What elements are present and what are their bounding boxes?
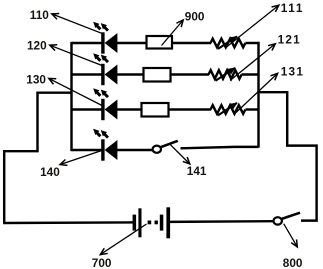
LED D1 emission arrows (93, 22, 108, 31)
switch S1 lever (161, 141, 178, 147)
resistor box row3 (142, 103, 169, 117)
resistor box row2 (144, 68, 171, 82)
LED D3 emission arrows (93, 88, 108, 97)
LED D1 (110) bar (101, 32, 104, 53)
svg-text:800: 800 (283, 256, 303, 269)
left bus vertical (70, 42, 72, 151)
wire row4 LED to switch 141 (117, 149, 152, 151)
svg-text:120: 120 (27, 39, 47, 53)
rheostat VR1 arrow (218, 36, 237, 49)
svg-text:130: 130 (26, 73, 46, 87)
leader 110 (52, 14, 103, 34)
wire row3 box to rheostat (169, 108, 212, 110)
wire row1 LED to resistor 900 (117, 42, 147, 44)
battery 700 cell2 long plate (166, 207, 170, 238)
LED D1 triangle (105, 33, 118, 53)
LED D2 triangle (105, 65, 118, 85)
svg-text:900: 900 (185, 10, 205, 24)
rheostat VR1 zigzag (211, 39, 246, 48)
leader 111 (227, 5, 279, 47)
bottom wire battery to switch 800 (170, 220, 274, 223)
wire row1 rheostat to right bus (246, 42, 260, 44)
rheostat VR2 zigzag (209, 70, 242, 79)
svg-text:131: 131 (281, 65, 304, 79)
leader 131 (236, 73, 278, 112)
leader 140 (60, 151, 101, 165)
switch S2 (800) pivot circle (274, 217, 282, 224)
resistor 900 box (147, 36, 173, 49)
svg-text:121: 121 (278, 32, 301, 46)
wire row2 box to rheostat (171, 73, 210, 75)
svg-text:140: 140 (40, 165, 60, 179)
wire row3 rheostat to right bus (246, 108, 260, 110)
wire row2 left (bus to LED 120) (72, 73, 102, 75)
battery dashed dot 2 (155, 221, 158, 225)
battery 700 cell1 short plate (133, 215, 137, 231)
LED D4 (140) bar (101, 139, 104, 160)
battery 700 cell2 short plate (160, 215, 164, 231)
wire row1 box to rheostat (172, 42, 211, 44)
LED D2 (120) bar (101, 64, 104, 85)
svg-text:110: 110 (30, 8, 49, 22)
rheostat VR3 zigzag (211, 105, 246, 114)
leader 800 (284, 224, 298, 247)
leader 900 (162, 20, 184, 46)
LED D4 emission arrows (93, 129, 108, 138)
wire row4 switch to right bus (181, 147, 259, 148)
battery 700 cell1 long plate (138, 208, 141, 237)
svg-text:111: 111 (281, 1, 304, 15)
leader 121 (230, 44, 275, 81)
right bus vertical (257, 42, 259, 148)
switch S1 (141) pivot circle (153, 146, 161, 153)
wire row2 rheostat to right bus (242, 73, 260, 75)
leader 130 (49, 78, 104, 106)
LED D3 (130) bar (101, 99, 104, 120)
LED D3 triangle (105, 100, 118, 120)
rheostat VR3 arrow (218, 103, 237, 116)
svg-text:700: 700 (92, 256, 112, 269)
wire row3 LED to box (117, 108, 142, 110)
LED D4 triangle (105, 140, 118, 160)
wire row2 LED to box (117, 73, 144, 75)
wire row3 left (bus to LED 130) (72, 108, 102, 110)
switch S2 lever (282, 213, 300, 219)
leader 141 (171, 145, 190, 164)
wire row4 left (bus to LED 140) (72, 149, 102, 151)
LED D2 emission arrows (93, 53, 108, 62)
wire row1 left (bus to LED 110) (72, 42, 102, 44)
leader 120 (50, 45, 102, 65)
bottom wire left segment to battery (3, 221, 133, 224)
battery dashed dot 1 (148, 221, 152, 225)
right edge wire: stub, up right side, jog to right bus (259, 92, 317, 220)
leader 700 (100, 224, 146, 255)
svg-text:141: 141 (187, 164, 207, 178)
staircase wire left bus to bottom-left corner (4, 93, 71, 224)
rheostat VR2 arrow (216, 68, 236, 81)
